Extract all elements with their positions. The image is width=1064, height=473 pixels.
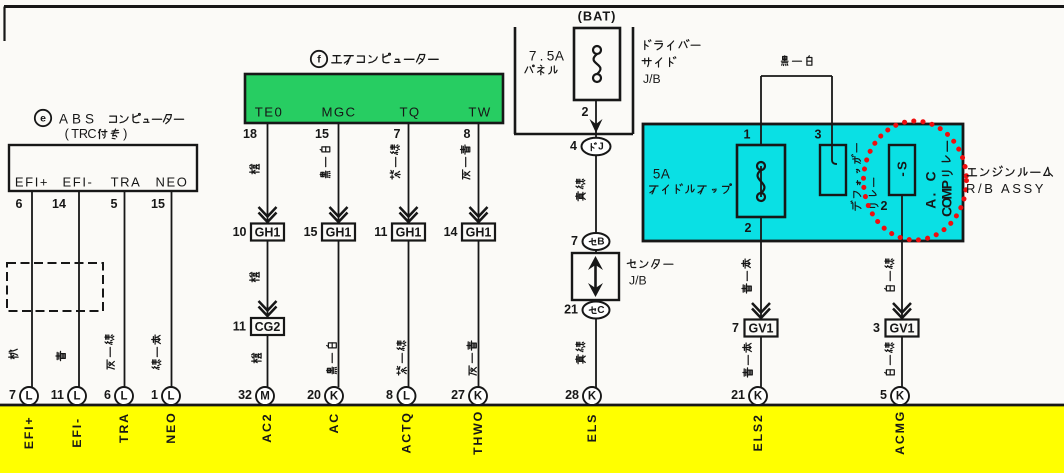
connector 6 (L) TRA	[104, 387, 133, 405]
connector 7 GV1	[732, 320, 777, 337]
wire into defogger relay with hook	[832, 124, 837, 164]
pin number 14	[52, 197, 66, 211]
label 7.5A	[529, 49, 565, 64]
wire color label white-green lower	[885, 343, 895, 375]
svg-text:K: K	[474, 391, 483, 403]
ECU terminal name ACTQ	[400, 411, 414, 453]
terminal TE0	[255, 105, 283, 120]
svg-text:11: 11	[51, 388, 64, 402]
wire color label blue-red upper	[742, 259, 752, 293]
wire color label orange mid TE0	[250, 272, 259, 281]
svg-text:5: 5	[111, 197, 118, 211]
pin 2 of A/C COMP relay	[881, 199, 888, 213]
svg-text:GV1: GV1	[889, 322, 914, 336]
svg-text:L: L	[25, 391, 32, 403]
driver side J/B outline	[514, 27, 633, 134]
svg-text:2: 2	[745, 221, 752, 235]
svg-text:GH1: GH1	[396, 226, 422, 240]
connector 32 (M) AC2	[238, 387, 274, 405]
ABS pin label NEO	[156, 175, 189, 190]
junction arrow into GH1 TQ	[400, 207, 418, 222]
yellow ECU terminal band at bottom	[0, 405, 1064, 473]
svg-text:K: K	[330, 391, 339, 403]
svg-text:7: 7	[394, 127, 401, 141]
label (BAT)	[578, 9, 617, 24]
svg-text:20: 20	[307, 388, 321, 402]
svg-text:10: 10	[233, 225, 247, 239]
wire color label blue-red lower	[743, 343, 753, 377]
connector 20 (K) AC	[307, 387, 343, 405]
svg-text:18: 18	[243, 127, 257, 141]
wire color label white-green upper	[885, 259, 895, 291]
terminal TQ	[399, 105, 420, 120]
wire color label green-red	[152, 335, 161, 369]
terminal TW	[468, 105, 491, 120]
label A.C COMP relay (vertical)	[924, 141, 955, 217]
wire fuse to DJ connector	[595, 100, 597, 388]
dashed option box over EFI wires	[7, 263, 103, 311]
pin number 15	[151, 197, 165, 211]
wire black-white from relay block pin1 to pin3	[761, 76, 832, 124]
ECU terminal name ELS	[585, 413, 599, 443]
label black-white wire top	[781, 56, 812, 66]
svg-text:ACTQ: ACTQ	[400, 411, 414, 453]
svg-text:11: 11	[233, 320, 246, 334]
svg-text:ELS2: ELS2	[751, 413, 765, 451]
svg-text:R/B ASSY: R/B ASSY	[966, 181, 1046, 196]
label center J/B	[627, 260, 673, 288]
junction arrow into GH1 TE0	[259, 207, 277, 222]
connector 11 CG2	[233, 318, 284, 335]
svg-text:6: 6	[16, 197, 23, 211]
connector 5 (K) ACMG	[880, 387, 909, 405]
svg-text:7: 7	[571, 234, 578, 248]
pin 3 of defogger relay	[815, 128, 822, 142]
ECU terminal name EFI-	[70, 417, 84, 448]
svg-text:AC2: AC2	[260, 413, 274, 443]
wire color label lower (紫ー緑) TQ	[397, 341, 407, 375]
connector 27 (K) THWO	[451, 387, 487, 405]
svg-text:7: 7	[732, 321, 739, 335]
svg-text:ELS: ELS	[585, 413, 599, 443]
pin number 2	[582, 105, 589, 119]
ABS pin label TRA	[111, 175, 142, 190]
label 5A idle up	[650, 167, 732, 194]
svg-text:MGC: MGC	[322, 105, 357, 120]
svg-text:AC: AC	[327, 412, 341, 434]
wire from ABS EFI+ to ECU	[31, 191, 33, 387]
A/C COMP relay box -S	[889, 145, 915, 195]
svg-text:J: J	[598, 142, 604, 153]
svg-text:15: 15	[151, 197, 165, 211]
svg-text:J/B: J/B	[629, 274, 647, 288]
svg-text:1: 1	[744, 128, 751, 142]
ECU terminal name THWO	[471, 410, 485, 455]
svg-text:TE0: TE0	[255, 105, 283, 120]
svg-text:B: B	[597, 237, 604, 248]
svg-text:A: A	[555, 49, 565, 64]
wire from A/C computer TE0 down	[267, 123, 269, 387]
ECU terminal name ACMG	[893, 410, 907, 455]
fuse 7.5A panel box	[574, 28, 620, 100]
junction arrow into GH1 TW	[470, 207, 488, 222]
svg-text:C: C	[597, 305, 605, 316]
wire from A/C computer TW down	[478, 123, 480, 387]
svg-text:5: 5	[880, 388, 887, 402]
svg-text:EFI-: EFI-	[63, 175, 94, 190]
wire color label pink (momo)	[9, 349, 18, 359]
svg-text:ABS: ABS	[59, 112, 98, 127]
svg-text:J/B: J/B	[643, 72, 661, 86]
svg-text:C: C	[924, 171, 939, 181]
svg-text:14: 14	[52, 197, 66, 211]
svg-text:GH1: GH1	[255, 226, 281, 240]
svg-text:A: A	[924, 199, 939, 209]
connector 21 (seC)	[564, 302, 609, 319]
svg-text:ACMG: ACMG	[893, 410, 907, 455]
ABS computer box (e)	[9, 145, 197, 191]
red dotted highlight ellipse	[864, 121, 967, 240]
connector 11 GH1 TQ	[374, 224, 425, 241]
svg-text:P: P	[940, 180, 955, 189]
junction arrow into GH1 MGC	[330, 207, 348, 222]
connector 14 GH1 TW	[444, 224, 495, 241]
svg-text:2: 2	[881, 199, 888, 213]
wire color label upper (黒ー白) MGC	[320, 147, 330, 178]
svg-text:TW: TW	[468, 105, 491, 120]
double arrow inside center J/B	[588, 256, 603, 297]
svg-text:(BAT): (BAT)	[578, 9, 617, 24]
pin number 5	[111, 197, 118, 211]
svg-text:11: 11	[374, 225, 387, 239]
solid arrow into J/B	[590, 119, 603, 133]
connector 7 (L) EFI+	[9, 387, 38, 405]
top border line of schematic frame	[4, 7, 1064, 42]
wire color label orange lower TE0	[252, 353, 261, 362]
pin number 15	[315, 127, 329, 141]
pin 2 of idle up fuse	[745, 221, 752, 235]
wire color label yellow-green upper	[576, 179, 586, 201]
svg-text:28: 28	[565, 388, 579, 402]
terminal MGC	[322, 105, 357, 120]
svg-text:EFI+: EFI+	[22, 416, 36, 450]
svg-text:1: 1	[151, 388, 158, 402]
svg-text:M: M	[260, 391, 270, 403]
wire from A/C COMP relay down	[901, 195, 903, 388]
svg-text:4: 4	[570, 139, 577, 153]
ABS pin label EFI+	[15, 175, 49, 190]
wire color label blue (ao)	[56, 351, 65, 360]
connector 15 GH1 MGC	[304, 224, 355, 241]
fuse element 5A	[757, 162, 765, 201]
ECU terminal name TRA	[117, 412, 131, 443]
svg-text:15: 15	[304, 225, 318, 239]
defogger relay box	[820, 145, 846, 195]
svg-text:K: K	[754, 391, 763, 403]
connector 11 (L) EFI-	[51, 387, 86, 405]
fuse 5A idle up box	[737, 145, 785, 217]
svg-text:7: 7	[529, 49, 537, 64]
fuse element 7.5A	[593, 46, 601, 82]
connector 8 (L) ACTQ	[386, 387, 415, 405]
svg-text:S: S	[895, 161, 910, 170]
svg-text:GH1: GH1	[466, 226, 492, 240]
svg-text:GH1: GH1	[326, 226, 352, 240]
pin number 8	[464, 127, 471, 141]
connector 21 (K) ELS2	[731, 387, 767, 405]
wire color label yellow-green lower	[576, 342, 586, 364]
A/C computer U-f label	[311, 51, 438, 67]
label driver side J/B	[642, 40, 700, 86]
connector 4 (DJ)	[570, 138, 610, 156]
svg-text:TRA: TRA	[111, 175, 142, 190]
svg-text:TRA: TRA	[117, 412, 131, 443]
svg-text:21: 21	[731, 388, 745, 402]
svg-text:21: 21	[564, 303, 578, 317]
svg-text:f: f	[317, 54, 321, 66]
svg-text:): )	[123, 127, 127, 141]
svg-text:CG2: CG2	[255, 320, 281, 334]
svg-text:L: L	[403, 391, 410, 403]
svg-text:15: 15	[315, 127, 329, 141]
wire from ABS EFI- to ECU	[78, 191, 80, 387]
wire color label upper (橙) TE0	[250, 164, 259, 173]
wire color label lower (黒ー白) MGC	[327, 343, 337, 374]
A/C computer box (f) green	[245, 74, 503, 123]
svg-text:C: C	[87, 127, 96, 141]
svg-text:.: .	[540, 49, 544, 64]
svg-text:NEO: NEO	[156, 175, 189, 190]
wire through idle up fuse down	[760, 124, 762, 388]
pin 1 of idle up fuse	[744, 128, 751, 142]
svg-text:L: L	[167, 391, 174, 403]
label panel (paneru)	[525, 65, 557, 75]
wire from A/C computer TQ down	[408, 123, 410, 387]
svg-text:.: .	[924, 193, 939, 197]
svg-text:EFI-: EFI-	[70, 417, 84, 448]
ECU terminal name AC	[327, 412, 341, 434]
wire from A/C computer MGC down	[338, 123, 340, 387]
svg-text:8: 8	[464, 127, 471, 141]
ECU terminal name ELS2	[751, 413, 765, 451]
connector 10 GH1 TE0	[233, 224, 284, 241]
wire color label upper (灰ー青) TW	[461, 145, 470, 179]
svg-text:3: 3	[873, 321, 880, 335]
svg-text:e: e	[40, 113, 46, 125]
svg-text:GV1: GV1	[748, 322, 773, 336]
svg-text:7: 7	[9, 388, 16, 402]
ECU terminal name AC2	[260, 413, 274, 443]
pin number 18	[243, 127, 257, 141]
wire color label gray-green	[105, 335, 114, 369]
svg-text:14: 14	[444, 225, 458, 239]
svg-text:6: 6	[104, 388, 111, 402]
svg-text:NEO: NEO	[164, 411, 178, 443]
center J/B box	[572, 253, 619, 300]
ABS pin label EFI-	[63, 175, 94, 190]
wire color label lower (灰ー青) TW	[467, 341, 476, 375]
svg-text:TQ: TQ	[399, 105, 420, 120]
label engine room R/B ASSY	[966, 166, 1053, 196]
svg-text:K: K	[588, 391, 597, 403]
connector 28 (K) ELS	[565, 387, 601, 405]
connector 7 (seB)	[571, 233, 609, 250]
svg-text:3: 3	[815, 128, 822, 142]
connector 1 (L) NEO	[151, 387, 180, 405]
engine room R/B box (cyan)	[643, 124, 963, 241]
svg-text:THWO: THWO	[471, 410, 485, 455]
wire from ABS TRA to ECU	[124, 191, 126, 387]
svg-text:8: 8	[386, 388, 393, 402]
junction arrow into CG2	[259, 301, 277, 316]
svg-text:K: K	[896, 391, 905, 403]
svg-text:-: -	[895, 172, 910, 176]
svg-text:A: A	[661, 167, 670, 182]
svg-text:L: L	[73, 391, 80, 403]
svg-text:5: 5	[547, 49, 555, 64]
svg-text:L: L	[120, 391, 127, 403]
pin number 6	[16, 197, 23, 211]
svg-text:27: 27	[451, 388, 465, 402]
pin number 7	[394, 127, 401, 141]
junction arrow into GV1 ACMG	[893, 303, 911, 318]
connector 3 GV1	[873, 320, 918, 337]
ECU terminal name EFI+	[22, 416, 36, 450]
svg-text:EFI+: EFI+	[15, 175, 49, 190]
wire from ABS NEO to ECU	[171, 191, 173, 387]
label defogger relay (vertical)	[851, 144, 878, 211]
ABS computer U-e label	[35, 110, 184, 141]
svg-text:5: 5	[653, 167, 660, 182]
svg-text:2: 2	[582, 105, 589, 119]
junction arrow into GV1 ELS2	[752, 303, 770, 318]
wire color label upper (紫ー緑) TQ	[390, 145, 400, 179]
svg-text:32: 32	[238, 388, 252, 402]
ECU terminal name NEO	[164, 411, 178, 443]
